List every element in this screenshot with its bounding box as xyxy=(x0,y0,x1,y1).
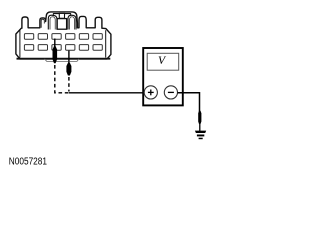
slot row bottom: slot 1 xyxy=(24,45,33,51)
slot row top: slot 5 xyxy=(79,34,88,40)
svg-text:N0057281: N0057281 xyxy=(9,157,48,168)
probe 1 tip line (into top-row slot 3) xyxy=(54,39,56,47)
connector body outline xyxy=(16,12,111,59)
probe 1 arrow body xyxy=(53,44,58,63)
slot row bottom: slot 4 xyxy=(66,45,75,51)
central latch square button xyxy=(57,19,66,30)
dashed test lead from probe 2 xyxy=(68,77,70,92)
voltmeter positive terminal xyxy=(144,86,157,99)
wire to voltmeter positive terminal xyxy=(69,92,145,94)
dashed test lead from probe 1 xyxy=(55,65,69,93)
slot row top: slot 6 xyxy=(93,34,102,40)
slot row top: slot 3 xyxy=(52,34,61,40)
slot row bottom: slot 5 xyxy=(79,45,88,51)
probe 2 arrow body xyxy=(66,61,71,76)
slot row top: slot 1 xyxy=(24,34,33,40)
ground symbol bar 1 xyxy=(195,131,206,133)
ground symbol bar 3 xyxy=(199,138,203,140)
connector bottom edge thick line xyxy=(17,58,111,60)
wire from negative terminal to ground drop xyxy=(178,93,200,112)
slot row top: slot 4 xyxy=(66,34,75,40)
slot row bottom: slot 6 xyxy=(93,45,102,51)
connector inner left edge line xyxy=(19,30,21,58)
slot row bottom: slot 3 xyxy=(52,45,61,51)
central latch left inner arch xyxy=(48,15,57,29)
bump2 inner arch line xyxy=(41,19,44,28)
connector bottom tray protrusion xyxy=(45,59,79,62)
slot row top: slot 2 xyxy=(38,34,47,40)
wire below terminal blob xyxy=(199,124,201,132)
connector inner right edge line xyxy=(105,30,107,57)
central latch right inner arch xyxy=(68,15,76,29)
voltmeter display window xyxy=(147,53,179,70)
probe 2 tip line (below bottom-row slot 4) xyxy=(68,51,70,62)
central latch top bar xyxy=(53,13,71,15)
central latch stem xyxy=(59,13,64,18)
inline terminal blob on ground wire xyxy=(198,111,201,124)
slot row bottom: slot 2 xyxy=(38,45,47,51)
voltmeter negative terminal xyxy=(164,86,177,99)
voltmeter U1 box xyxy=(143,48,183,105)
ground symbol bar 2 xyxy=(197,135,204,137)
